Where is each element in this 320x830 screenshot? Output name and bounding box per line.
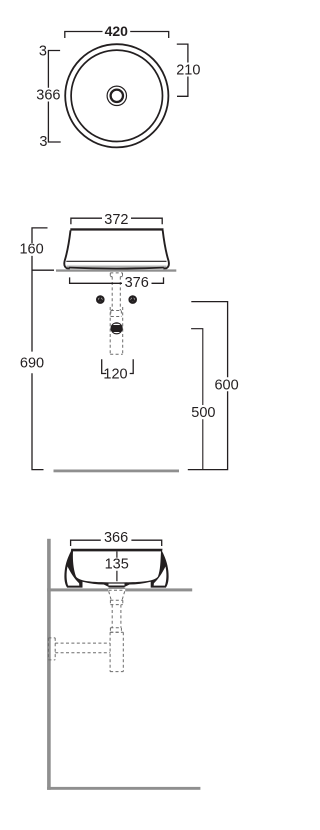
svg-text:210: 210 [176, 62, 200, 78]
dashed wall fitting (side view) [48, 638, 55, 660]
dimension 600 right (front view) [188, 302, 239, 470]
dimension 160 and 690 left (front view) [19, 228, 54, 470]
dashed pipe coupling 2 (side view) [110, 628, 121, 633]
basin side view bowl interior cut [73, 551, 161, 582]
dashed coupling (front view) [111, 311, 122, 317]
svg-text:3: 3 [39, 44, 47, 60]
dimension 210 right (top view) [176, 44, 200, 96]
dashed trap body (front view) [110, 307, 123, 354]
drain outer circle [107, 86, 126, 105]
dimension 366 (side view) [71, 530, 162, 546]
floor line (side view) [47, 787, 200, 790]
basin front view flare line [66, 260, 166, 262]
counter line (front view) [56, 269, 176, 271]
dimension 372 (front view) [71, 212, 162, 228]
mounting bolt right [130, 296, 136, 303]
svg-text:690: 690 [20, 355, 44, 371]
basin outer rim circle (top view) [65, 44, 168, 147]
svg-text:366: 366 [104, 530, 128, 546]
dimension 500 right (front view) [191, 329, 215, 469]
dashed funnel below counter (side view) [109, 590, 125, 600]
svg-text:600: 600 [214, 377, 238, 393]
drain ball valve (front view) [111, 323, 122, 334]
dimension 120 (front view) [102, 359, 134, 382]
dashed drain pipe (front view) [112, 277, 120, 311]
basin side view left foot notch [67, 567, 80, 586]
basin front view left wall [64, 230, 70, 268]
svg-text:366: 366 [36, 88, 60, 104]
dashed coupling (side view) [110, 600, 122, 604]
dashed drain funnel below counter (front view) [110, 273, 122, 277]
svg-text:500: 500 [191, 405, 215, 421]
mounting bolt left [97, 296, 103, 303]
drain inner ring [111, 90, 123, 102]
svg-text:372: 372 [104, 212, 128, 228]
under-bowl white sliver (side view) [109, 584, 125, 586]
counter line (side view) [47, 588, 108, 591]
basin front view right wall [163, 230, 169, 268]
dashed tee body (side view) [110, 632, 123, 671]
dashed horizontal waste pipe (side view) [55, 643, 110, 653]
wall line (side view) [47, 539, 51, 790]
dashed pipe (side view) [112, 605, 121, 628]
dimension 420 top [65, 23, 169, 39]
svg-text:120: 120 [103, 366, 127, 382]
svg-text:160: 160 [19, 242, 43, 258]
dimension 366 left (top view) [36, 51, 60, 143]
basin front view rim [70, 228, 163, 230]
svg-text:376: 376 [125, 275, 149, 291]
dimension 376 (front view) [70, 275, 164, 291]
svg-text:135: 135 [105, 557, 129, 573]
basin inner rim circle (top view) [71, 50, 162, 141]
drain flange line (side view) [108, 587, 125, 589]
basin side view right foot notch [154, 567, 167, 586]
svg-text:420: 420 [105, 23, 129, 39]
svg-text:3: 3 [39, 134, 47, 150]
floor line (front view) [54, 470, 180, 473]
basin side view shell [64, 549, 168, 588]
dimension 135 (side view) [105, 552, 129, 582]
basin front view bottom edge [69, 268, 164, 269]
